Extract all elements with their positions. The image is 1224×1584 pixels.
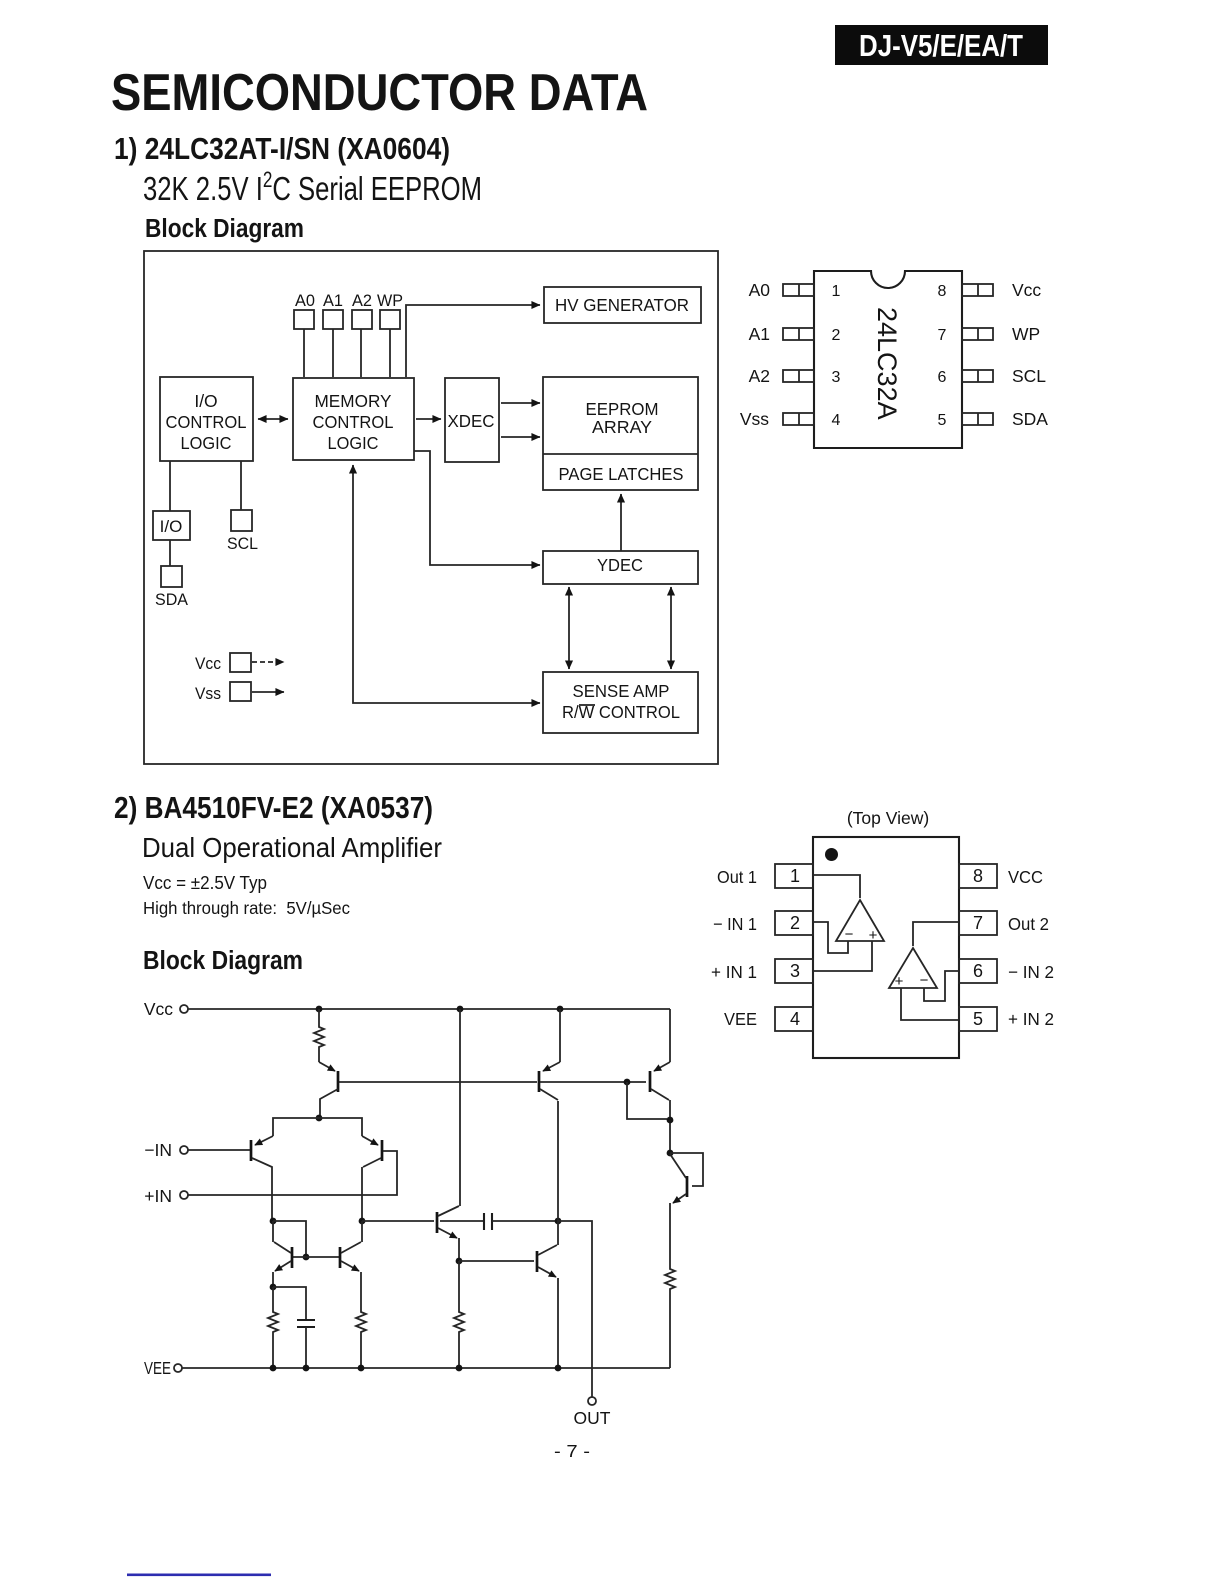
- node Q10 collector: [667, 1117, 674, 1124]
- wire pin3 to op-amp A1 non-inverting input: [813, 941, 872, 971]
- svg-text:YDEC: YDEC: [597, 555, 643, 575]
- pin 5 box: [959, 1007, 997, 1031]
- wire output node to OUT: [558, 1221, 592, 1397]
- IC U1 24LC32A body with notch: [814, 271, 962, 448]
- svg-text:2) BA4510FV-E2 (XA0537): 2) BA4510FV-E2 (XA0537): [114, 790, 433, 825]
- transistor Q1 (PNP): [319, 1062, 338, 1118]
- svg-text:SEMICONDUCTOR DATA: SEMICONDUCTOR DATA: [111, 64, 648, 122]
- svg-text:A2: A2: [352, 291, 372, 310]
- svg-text:SCL: SCL: [227, 534, 258, 553]
- pin 1 stub: [783, 284, 814, 296]
- svg-text:+IN: +IN: [144, 1186, 172, 1206]
- YDEC block: [543, 551, 698, 584]
- wire tail to Q2 emitter: [273, 1118, 319, 1136]
- svg-text:Vcc: Vcc: [144, 999, 173, 1019]
- transistor Q4 (NPN mirror left): [273, 1221, 292, 1287]
- transistor Q3 (PNP, +IN): [362, 1136, 382, 1221]
- transistor Q2 (PNP, -IN): [251, 1136, 273, 1221]
- pin A0: [294, 291, 315, 329]
- svg-text:− IN 1: − IN 1: [713, 914, 757, 934]
- svg-text:I/O: I/O: [194, 391, 217, 411]
- svg-text:5: 5: [938, 412, 947, 429]
- svg-text:−IN: −IN: [144, 1140, 172, 1160]
- transistor Q9 (NPN diode-connected): [670, 1153, 703, 1203]
- transistor Q6 (NPN 2nd stage): [437, 1009, 460, 1261]
- pin 1 box: [775, 864, 813, 888]
- terminal OUT: [574, 1397, 611, 1428]
- svg-text:6: 6: [938, 369, 947, 386]
- svg-text:SDA: SDA: [1012, 409, 1048, 429]
- node rail R3: [358, 1365, 365, 1372]
- svg-text:Vcc: Vcc: [1012, 280, 1041, 300]
- wire base bus Q8-Q10: [540, 1081, 646, 1083]
- pin 5 stub: [962, 413, 993, 425]
- wire Q6 emitter to Q7 base: [459, 1260, 534, 1262]
- node rail C2: [303, 1365, 310, 1372]
- svg-text:A1: A1: [749, 324, 770, 344]
- svg-text:Block Diagram: Block Diagram: [143, 947, 303, 975]
- pin 7 box: [959, 911, 997, 935]
- transistor Q7 (NPN output): [537, 1221, 558, 1368]
- wire mirror base bus: [293, 1256, 339, 1258]
- pin 8 stub: [962, 284, 993, 296]
- svg-text:2: 2: [790, 913, 800, 933]
- svg-text:(Top View): (Top View): [847, 808, 929, 828]
- node Q8/Q10 base: [624, 1079, 631, 1086]
- arrow YDEC to PAGE LATCHES: [620, 494, 622, 551]
- wire pin1 to op-amp A1 output: [813, 875, 860, 898]
- svg-text:LOGIC: LOGIC: [181, 433, 232, 453]
- op-amp A2 triangle: [889, 948, 937, 990]
- svg-text:24LC32A: 24LC32A: [872, 307, 902, 420]
- wire base bus Q1-Q8: [339, 1081, 537, 1083]
- svg-text:8: 8: [938, 283, 947, 300]
- node Q2 collector: [270, 1218, 277, 1225]
- I/O pad: [153, 511, 190, 540]
- svg-text:OUT: OUT: [574, 1408, 611, 1428]
- node Q6 emitter: [456, 1258, 463, 1265]
- svg-text:HV GENERATOR: HV GENERATOR: [555, 295, 689, 315]
- svg-text:A0: A0: [295, 291, 315, 310]
- model banner DJ-V5/E/EA/T: [835, 25, 1048, 65]
- svg-text:3: 3: [832, 369, 841, 386]
- wire A1 to memory control logic: [332, 329, 334, 377]
- wire Vcc rail: [188, 1008, 670, 1010]
- resistor R5: [665, 1203, 675, 1368]
- wire memory control logic to HV generator: [406, 305, 540, 377]
- svg-text:1) 24LC32AT-I/SN (XA0604): 1) 24LC32AT-I/SN (XA0604): [114, 131, 450, 166]
- svg-text:Vcc: Vcc: [195, 654, 221, 673]
- node mirror base: [303, 1254, 310, 1261]
- resistor R1: [314, 1009, 324, 1062]
- svg-text:8: 8: [973, 866, 983, 886]
- svg-text:+ IN 1: + IN 1: [711, 962, 757, 982]
- node rail Q7: [555, 1365, 562, 1372]
- node Q4 emitter: [270, 1284, 277, 1291]
- svg-text:+: +: [895, 973, 904, 990]
- svg-text:- 7 -: - 7 -: [554, 1441, 590, 1461]
- arrow XDEC to EEPROM array (upper): [501, 402, 540, 404]
- svg-text:A2: A2: [749, 366, 770, 386]
- svg-text:SENSE AMP: SENSE AMP: [573, 681, 670, 701]
- terminal VEE: [144, 1358, 182, 1378]
- arrow XDEC to EEPROM array (lower): [501, 436, 540, 438]
- pin 4 box: [775, 1007, 813, 1031]
- pin 8 box: [959, 864, 997, 888]
- pin Vcc: [195, 653, 251, 673]
- dashed arrow from Vcc pin: [252, 661, 284, 663]
- svg-text:VEE: VEE: [724, 1009, 757, 1029]
- resistor R4: [454, 1261, 464, 1368]
- transistor Q8 (PNP mirror): [539, 1009, 560, 1221]
- wire pin7 to op-amp A2 output: [913, 922, 959, 946]
- wire +IN to Q3 base loop: [188, 1151, 397, 1195]
- wire A2 to memory control logic: [360, 329, 362, 377]
- footer blue rule: [127, 1574, 271, 1577]
- svg-text:CONTROL: CONTROL: [166, 412, 247, 432]
- pin 6 box: [959, 959, 997, 983]
- svg-text:VCC: VCC: [1008, 867, 1043, 887]
- svg-text:Vss: Vss: [740, 409, 769, 429]
- EEPROM ARRAY / PAGE LATCHES block: [543, 377, 698, 490]
- svg-text:I/O: I/O: [160, 517, 183, 536]
- arrow I/O control to memory control (bidirectional): [258, 418, 288, 420]
- svg-text:− IN 2: − IN 2: [1008, 962, 1054, 982]
- pin 3 box: [775, 959, 813, 983]
- wire I/O control logic to I/O pad: [169, 461, 171, 511]
- wire pin2 to op-amp A1 inverting input: [813, 922, 848, 953]
- wire WP to memory control logic: [389, 329, 391, 377]
- svg-text:High through rate: 5V/µSec: High through rate: 5V/µSec: [143, 898, 350, 918]
- op-amp A1 triangle: [836, 900, 884, 944]
- svg-text:SCL: SCL: [1012, 366, 1046, 386]
- pin SDA: [155, 566, 189, 609]
- pin 2 box: [775, 911, 813, 935]
- svg-text:7: 7: [973, 913, 983, 933]
- pin SCL: [227, 510, 258, 553]
- wire mirror base feed: [273, 1221, 306, 1255]
- svg-text:Block Diagram: Block Diagram: [145, 215, 304, 243]
- svg-text:SDA: SDA: [155, 590, 189, 609]
- wire pin5 to op-amp A2 non-inverting input: [901, 988, 959, 1020]
- node Vcc-Q6: [457, 1006, 464, 1013]
- transistor Q10 (PNP diode-connected): [650, 1009, 670, 1153]
- wire I/O control logic to SCL pin: [240, 461, 242, 510]
- pin A2: [352, 291, 372, 329]
- wire -IN to Q2 base: [188, 1149, 250, 1151]
- node Q3 collector: [359, 1218, 366, 1225]
- svg-text:3: 3: [790, 961, 800, 981]
- arrow YDEC to SENSE AMP left (bidirectional): [568, 587, 570, 669]
- node output: [555, 1218, 562, 1225]
- pin A1: [323, 291, 343, 329]
- wire A0 to memory control logic: [303, 329, 305, 377]
- svg-text:6: 6: [973, 961, 983, 981]
- resistor R3: [356, 1272, 366, 1368]
- svg-text:ARRAY: ARRAY: [592, 417, 652, 437]
- svg-text:Vcc = ±2.5V Typ: Vcc = ±2.5V Typ: [143, 873, 267, 893]
- svg-text:Vss: Vss: [195, 684, 221, 703]
- wire I/O pad to SDA pin: [169, 540, 171, 566]
- svg-text:2: 2: [832, 327, 841, 344]
- svg-text:+ IN 2: + IN 2: [1008, 1009, 1054, 1029]
- svg-text:PAGE LATCHES: PAGE LATCHES: [559, 464, 684, 484]
- svg-text:CONTROL: CONTROL: [313, 412, 394, 432]
- node rail R2: [270, 1365, 277, 1372]
- node Vcc-Q8: [557, 1006, 564, 1013]
- svg-text:Out 2: Out 2: [1008, 914, 1049, 934]
- pin 1 index dot: [825, 848, 838, 861]
- transistor Q5 (NPN mirror right): [340, 1221, 362, 1271]
- node Vcc-R1: [316, 1006, 323, 1013]
- svg-text:7: 7: [938, 327, 947, 344]
- node rail R4: [456, 1365, 463, 1372]
- resistor R2: [268, 1287, 278, 1368]
- svg-text:WP: WP: [1012, 324, 1040, 344]
- svg-text:MEMORY: MEMORY: [315, 391, 392, 411]
- svg-text:XDEC: XDEC: [448, 411, 495, 431]
- wire pin6 to op-amp A2 inverting input: [924, 971, 959, 1001]
- diagram outer border: [144, 251, 718, 764]
- svg-text:A0: A0: [749, 280, 771, 300]
- wire VEE rail: [182, 1367, 670, 1369]
- svg-text:WP: WP: [377, 291, 403, 310]
- I/O CONTROL LOGIC block: [160, 377, 253, 461]
- wire Q3/Q5 node to Q6 base: [362, 1220, 434, 1222]
- pin 4 stub: [783, 413, 814, 425]
- pin WP: [377, 291, 403, 329]
- svg-text:−: −: [920, 972, 929, 989]
- svg-text:32K 2.5V I2C Serial EEPROM: 32K 2.5V I2C Serial EEPROM: [143, 167, 482, 207]
- wire memory control to YDEC: [414, 451, 540, 565]
- svg-text:1: 1: [790, 866, 800, 886]
- pin 2 stub: [783, 328, 814, 340]
- pin Vss: [195, 682, 251, 703]
- svg-text:1: 1: [832, 283, 841, 300]
- svg-text:Dual Operational Amplifier: Dual Operational Amplifier: [142, 832, 442, 863]
- svg-text:LOGIC: LOGIC: [328, 433, 379, 453]
- svg-text:5: 5: [973, 1009, 983, 1029]
- IC U2 package body: [813, 837, 959, 1058]
- SENSE AMP R/W CONTROL block: [543, 672, 698, 733]
- HV GENERATOR block: [544, 287, 701, 323]
- XDEC block: [445, 378, 499, 462]
- arrow from Vss pin: [252, 691, 284, 693]
- svg-text:+: +: [869, 927, 878, 944]
- pin 3 stub: [783, 370, 814, 382]
- wire Q10 base to collector loop: [627, 1082, 667, 1119]
- svg-text:−: −: [845, 926, 854, 943]
- terminal +IN: [144, 1186, 188, 1206]
- svg-text:4: 4: [832, 412, 841, 429]
- wire tail to Q3 emitter: [319, 1118, 362, 1136]
- pin 7 stub: [962, 328, 993, 340]
- terminal Vcc: [144, 999, 188, 1019]
- node diff pair tail: [316, 1115, 323, 1122]
- wire memory control to sense amp (bidirectional): [353, 465, 540, 703]
- svg-text:Out 1: Out 1: [717, 867, 757, 887]
- capacitor C2: [273, 1287, 315, 1368]
- capacitor C1 (compensation): [440, 1213, 556, 1230]
- MEMORY CONTROL LOGIC block: [293, 378, 414, 460]
- svg-text:DJ-V5/E/EA/T: DJ-V5/E/EA/T: [859, 28, 1023, 63]
- svg-text:VEE: VEE: [144, 1358, 171, 1378]
- node Q9 collector: [667, 1150, 674, 1157]
- arrow YDEC to SENSE AMP right (bidirectional): [670, 587, 672, 669]
- pin 6 stub: [962, 370, 993, 382]
- arrow memory control to XDEC: [416, 418, 441, 420]
- svg-text:EEPROM: EEPROM: [586, 399, 659, 419]
- svg-text:4: 4: [790, 1009, 800, 1029]
- svg-text:A1: A1: [323, 291, 343, 310]
- terminal -IN: [144, 1140, 188, 1160]
